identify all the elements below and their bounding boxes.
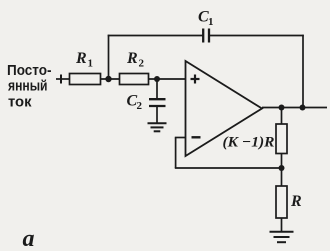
label: figure letter a (23, 226, 35, 251)
wire: op-amp output (262, 107, 327, 109)
wire: - feedback vertical (175, 138, 177, 169)
node junction D (output/feedback) (300, 105, 306, 111)
label C2 (127, 93, 143, 113)
node: input label "Постоянный ток" (7, 62, 52, 111)
svg-text:ток: ток (8, 94, 32, 111)
label C1 (198, 9, 214, 29)
ground (C2) (148, 122, 167, 124)
svg-text:а: а (23, 226, 35, 251)
capacitor C1 (202, 29, 204, 43)
node junction E (279, 165, 285, 171)
svg-text:янный: янный (8, 78, 48, 95)
op-amp U1 (186, 61, 263, 156)
svg-text:1: 1 (88, 58, 94, 70)
label R1 (75, 50, 93, 70)
resistor R (276, 186, 287, 218)
svg-text:R: R (290, 193, 302, 210)
svg-text:2: 2 (139, 58, 145, 70)
wire: input lead to R1 (56, 78, 70, 80)
wire: top feedback right segment (210, 35, 304, 37)
svg-text:Посто-: Посто- (7, 62, 52, 79)
wire: output down to (K-1)R (281, 108, 283, 125)
ground (R) (270, 231, 294, 233)
wire: - input feedback (horizontal into op-amp) (175, 137, 186, 139)
node junction A (R1/R2/feedback) (105, 76, 111, 82)
label R2 (126, 50, 145, 70)
resistor R2 (120, 74, 149, 85)
wire: R1 to R2 (101, 78, 120, 80)
wire: R2 to op-amp + input (149, 78, 186, 80)
label R (290, 193, 302, 210)
node junction C (output/(K-1)R) (279, 105, 285, 111)
svg-text:2: 2 (137, 100, 143, 112)
svg-text:R: R (126, 50, 138, 67)
resistor R1 (70, 74, 101, 85)
wire: - feedback bottom horizontal (175, 167, 282, 169)
node junction B (R2/C2) (154, 76, 160, 82)
svg-text:1: 1 (208, 16, 214, 28)
op-amp + input marking (191, 78, 200, 80)
node: input terminal tick (60, 75, 62, 84)
svg-text:R: R (75, 50, 87, 67)
wire: (K-1)R to node E (281, 154, 283, 187)
label (K-1)R (223, 135, 275, 151)
capacitor C2 (156, 79, 158, 98)
wire: feedback right vertical (302, 35, 304, 108)
wire: R to ground (281, 218, 283, 232)
wire: top feedback left segment (108, 35, 203, 37)
resistor (K-1)R (276, 124, 287, 154)
wire: feedback left vertical (108, 35, 110, 79)
svg-text:(K −1)R: (K −1)R (223, 135, 275, 151)
op-amp - input marking (192, 136, 201, 138)
